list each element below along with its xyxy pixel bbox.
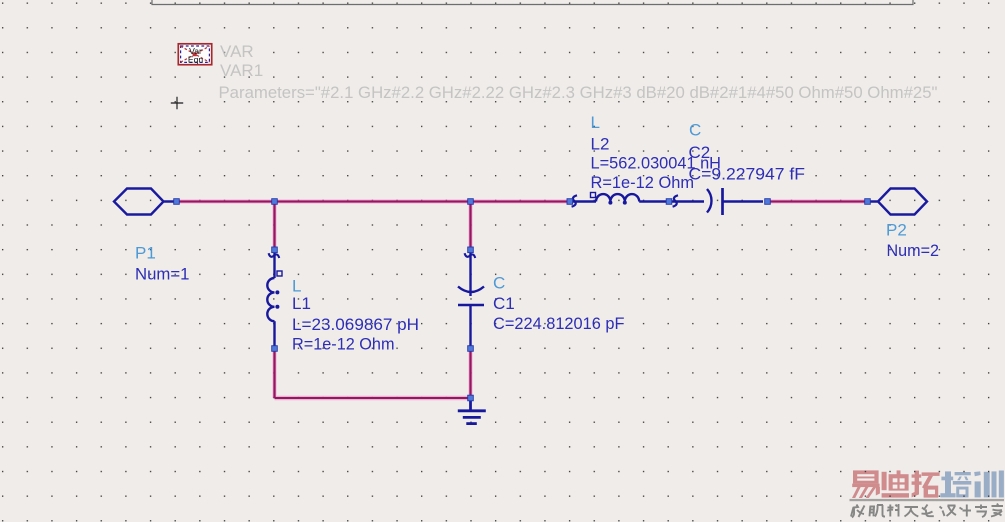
svg-text:C=224.812016 pF: C=224.812016 pF: [493, 314, 625, 333]
svg-text:Num=2: Num=2: [887, 241, 940, 260]
capacitor C1: [458, 252, 484, 348]
node: shunt C1 junction: [468, 199, 474, 205]
wire: P1 to L1 junction: [176, 200, 275, 202]
svg-text:R=1e-12 Ohm: R=1e-12 Ohm: [292, 335, 395, 354]
wire: junction down to L1 top: [273, 202, 275, 250]
node: shunt L1 junction: [272, 199, 278, 205]
svg-text:C: C: [493, 274, 505, 293]
node: L2 pin 1: [567, 199, 573, 205]
node: L1 top pin: [272, 247, 278, 253]
svg-text:P1: P1: [135, 244, 156, 263]
svg-text:Num=1: Num=1: [135, 265, 190, 284]
svg-text:Eqn: Eqn: [188, 54, 204, 64]
wire: junction down to C1 top: [469, 202, 471, 250]
wire: L1 junction to C1 junction: [275, 200, 471, 202]
wire: ground rail horizontal: [275, 397, 471, 399]
node: P2 pin: [865, 199, 871, 205]
wire: C1 bottom down to ground rail: [469, 351, 471, 398]
svg-text:L: L: [591, 113, 600, 132]
node: C1 top pin: [468, 247, 474, 253]
wire halo underlay: [176, 202, 865, 399]
wire: L1 bottom down to ground rail: [273, 351, 275, 398]
port P1: [114, 189, 174, 215]
svg-text:L1: L1: [292, 294, 311, 313]
svg-text:L=23.069867 pH: L=23.069867 pH: [292, 315, 419, 334]
svg-text:C1: C1: [493, 294, 515, 313]
ground: [458, 401, 486, 424]
watermark underline: [850, 499, 1005, 501]
svg-text:P2: P2: [886, 220, 907, 239]
origin cross marker: [171, 97, 183, 109]
watermark subtitle: [851, 504, 1003, 518]
svg-text:C: C: [689, 121, 701, 140]
node: C1 bottom pin: [468, 346, 474, 352]
node: L2 pin 2 / C2 pin 1: [666, 199, 672, 205]
svg-text:C=9.227947 fF: C=9.227947 fF: [689, 164, 806, 183]
svg-text:L: L: [292, 277, 301, 296]
wire: C2 to P2: [768, 200, 867, 202]
node: P1 pin: [174, 199, 180, 205]
svg-text:L2: L2: [591, 135, 610, 154]
inductor L1: [267, 252, 282, 348]
watermark big text peixun: [940, 471, 1003, 498]
window frame bottom edge (partial box at top): [152, 0, 913, 5]
inductor L2: [572, 193, 666, 207]
svg-text:VAR1: VAR1: [220, 61, 263, 80]
svg-text:Parameters="#2.1 GHz#2.2 GHz#2: Parameters="#2.1 GHz#2.2 GHz#2.22 GHz#2.…: [219, 83, 938, 102]
svg-text:VAR: VAR: [220, 42, 254, 61]
node: L1 bottom pin: [272, 346, 278, 352]
svg-text:R=1e-12 Ohm: R=1e-12 Ohm: [591, 173, 695, 192]
capacitor C2: [672, 188, 763, 215]
VAR equation icon VAR1: [178, 44, 211, 65]
watermark logo big text yidituo: [852, 470, 940, 498]
wire: C1 junction to L2: [471, 200, 570, 202]
svg-text:C2: C2: [689, 143, 711, 162]
node: ground junction: [468, 395, 474, 401]
node: C2 pin 2: [765, 199, 771, 205]
port P2: [866, 189, 927, 215]
